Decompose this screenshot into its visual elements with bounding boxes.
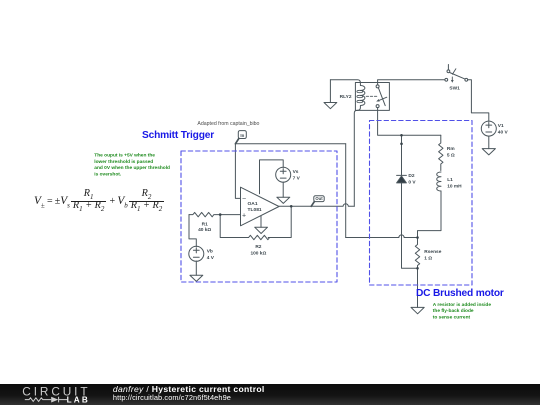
svg-text:the fly-back diode: the fly-back diode	[433, 308, 474, 314]
svg-text:DC Brushed motor: DC Brushed motor	[416, 288, 504, 299]
svg-text:7 V: 7 V	[293, 176, 301, 182]
svg-text:5 Ω: 5 Ω	[447, 153, 455, 159]
svg-text:1 Ω: 1 Ω	[424, 256, 432, 262]
svg-text:The ouput is +5V when the: The ouput is +5V when the	[94, 153, 155, 159]
svg-text:RLY2: RLY2	[340, 94, 352, 100]
svg-text:Rm: Rm	[447, 146, 455, 152]
svg-text:SW1: SW1	[449, 86, 460, 92]
svg-text:V1: V1	[498, 123, 504, 129]
svg-text:Schmitt Trigger: Schmitt Trigger	[142, 130, 214, 141]
svg-text:Vb: Vb	[207, 248, 213, 254]
svg-text:0 V: 0 V	[408, 180, 416, 186]
svg-text:OA1: OA1	[248, 201, 258, 207]
svg-text:Out: Out	[315, 196, 323, 201]
svg-text:Adapted from captain_bibo: Adapted from captain_bibo	[197, 121, 259, 127]
svg-text:40 V: 40 V	[498, 130, 509, 136]
svg-text:L1: L1	[447, 177, 453, 183]
svg-text:is overshot.: is overshot.	[94, 171, 121, 177]
svg-text:100 kΩ: 100 kΩ	[250, 250, 266, 256]
svg-text:R2: R2	[255, 244, 261, 250]
svg-text:R1: R1	[202, 221, 208, 227]
svg-text:D2: D2	[408, 173, 414, 179]
svg-text:40 kΩ: 40 kΩ	[198, 227, 211, 233]
svg-text:and 0V when the upper threshol: and 0V when the upper threshold	[94, 165, 170, 171]
svg-text:LAB: LAB	[67, 395, 90, 404]
svg-text:+: +	[242, 213, 246, 220]
svg-text:A resistor is added inside: A resistor is added inside	[433, 302, 492, 308]
svg-text:Rsense: Rsense	[424, 249, 441, 255]
svg-text:10 mH: 10 mH	[447, 184, 462, 190]
svg-text:to sense current: to sense current	[433, 314, 471, 320]
svg-text:TL081: TL081	[248, 207, 262, 213]
svg-text:lower threshold is passed: lower threshold is passed	[94, 159, 153, 165]
svg-text:−: −	[242, 196, 246, 203]
svg-text:Vs: Vs	[293, 169, 299, 175]
svg-text:In: In	[240, 133, 244, 138]
svg-text:4 V: 4 V	[207, 255, 215, 261]
